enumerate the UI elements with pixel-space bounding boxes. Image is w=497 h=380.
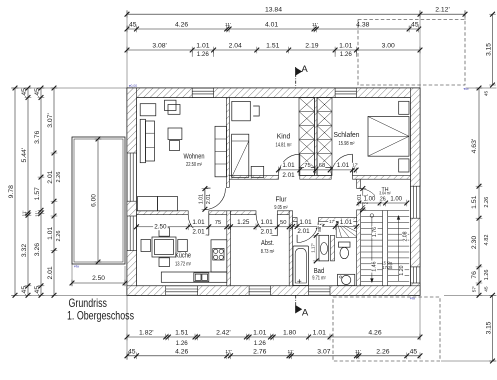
svg-text:45: 45 bbox=[128, 348, 136, 355]
svg-text:17': 17' bbox=[225, 349, 231, 355]
svg-text:2.30: 2.30 bbox=[471, 236, 478, 249]
dim top row total 13.84 / 2.12 bbox=[127, 13, 465, 15]
svg-text:8.73 m²: 8.73 m² bbox=[261, 249, 275, 255]
svg-text:3.15: 3.15 bbox=[485, 321, 492, 334]
svg-text:1.51: 1.51 bbox=[266, 42, 279, 49]
svg-text:1.01: 1.01 bbox=[282, 162, 295, 169]
svg-text:Schlafen: Schlafen bbox=[334, 130, 360, 139]
svg-text:9.71 m²: 9.71 m² bbox=[312, 275, 326, 281]
dim left total 9.78 bbox=[14, 88, 16, 295]
svg-text:1.80: 1.80 bbox=[283, 329, 296, 336]
svg-text:2.08: 2.08 bbox=[402, 231, 408, 241]
chair Kind bbox=[253, 106, 259, 116]
dim Abst row bbox=[231, 226, 293, 228]
svg-text:.45: .45 bbox=[21, 286, 28, 296]
svg-text:.45: .45 bbox=[34, 88, 41, 98]
dim bottom row 1 bbox=[127, 336, 420, 338]
shower bbox=[335, 221, 337, 237]
svg-text:3.26: 3.26 bbox=[34, 243, 41, 256]
svg-text:68: 68 bbox=[319, 163, 325, 169]
svg-text:3.64 m²: 3.64 m² bbox=[379, 191, 391, 196]
svg-text:2.01: 2.01 bbox=[192, 228, 205, 235]
door Kueche bbox=[208, 215, 210, 236]
balcony dim 6.00 bbox=[97, 139, 99, 262]
sofa bottom bbox=[138, 197, 158, 211]
dining table bbox=[152, 237, 176, 257]
svg-text:4.63': 4.63' bbox=[471, 139, 478, 154]
wall Flur-TH bbox=[357, 179, 361, 188]
dim TH door bbox=[362, 189, 364, 210]
sink bbox=[194, 273, 209, 282]
svg-text:A: A bbox=[301, 64, 308, 75]
dim Kueche row bbox=[137, 226, 231, 228]
svg-text:1.01: 1.01 bbox=[196, 42, 209, 49]
svg-text:Abst.: Abst. bbox=[261, 238, 274, 247]
wc bbox=[339, 242, 351, 247]
svg-text:4.26: 4.26 bbox=[368, 329, 381, 336]
svg-text:2.50: 2.50 bbox=[92, 275, 105, 282]
svg-text:1.51: 1.51 bbox=[471, 195, 478, 208]
dim right col main bbox=[478, 88, 480, 295]
svg-text:2.76: 2.76 bbox=[253, 348, 266, 355]
section mark A top bbox=[295, 67, 297, 88]
door Schlafen bbox=[352, 154, 354, 175]
svg-text:1.01: 1.01 bbox=[198, 194, 204, 204]
door Bad bbox=[296, 221, 298, 242]
svg-text:2.19: 2.19 bbox=[305, 42, 318, 49]
svg-text:1.51: 1.51 bbox=[175, 329, 188, 336]
dim bottom row 1 subs 1.26 bbox=[167, 334, 169, 341]
svg-text:3.76: 3.76 bbox=[34, 130, 41, 143]
svg-text:▾0,00: ▾0,00 bbox=[129, 84, 137, 88]
svg-text:1.17': 1.17' bbox=[310, 243, 315, 253]
svg-text:.45: .45 bbox=[409, 21, 419, 28]
sofa left bbox=[140, 119, 145, 162]
svg-text:Wohnen: Wohnen bbox=[184, 152, 205, 161]
svg-text:2.26: 2.26 bbox=[376, 348, 389, 355]
wall Wohnen-Kind bbox=[226, 98, 229, 188]
svg-text:4.26: 4.26 bbox=[175, 21, 188, 28]
window top Wohnen bbox=[192, 90, 213, 92]
svg-text:11': 11' bbox=[21, 210, 27, 216]
bathtub bbox=[293, 246, 309, 286]
corridor top wall bbox=[229, 176, 278, 180]
svg-text:2.01: 2.01 bbox=[282, 172, 295, 179]
svg-text:17': 17' bbox=[352, 162, 358, 167]
svg-text:▾tw: ▾tw bbox=[74, 264, 80, 268]
svg-text:1.46: 1.46 bbox=[372, 261, 378, 271]
svg-text:4.38: 4.38 bbox=[356, 21, 369, 28]
wall right bbox=[411, 88, 421, 186]
dim top row 2 bbox=[127, 28, 419, 30]
svg-text:2.01: 2.01 bbox=[47, 266, 54, 279]
vanity bbox=[319, 235, 329, 261]
svg-text:11': 11' bbox=[225, 22, 231, 28]
svg-text:3.15: 3.15 bbox=[485, 43, 492, 56]
dim top row 3 bbox=[127, 49, 420, 51]
wall Kueche top bbox=[137, 211, 189, 215]
svg-text:1.01: 1.01 bbox=[337, 162, 350, 169]
door Wohnen-Flur bbox=[205, 187, 211, 189]
armchair bbox=[140, 104, 156, 116]
svg-text:2.26: 2.26 bbox=[56, 172, 62, 183]
shelf bbox=[215, 126, 227, 177]
balcony dim 2.50 bbox=[72, 282, 125, 284]
svg-text:1.01: 1.01 bbox=[313, 329, 326, 336]
wall left bbox=[127, 88, 137, 153]
dim stairs width bbox=[359, 202, 407, 204]
svg-text:2.12': 2.12' bbox=[435, 7, 450, 14]
staircase bbox=[361, 210, 409, 212]
dim Wohnen-Flur door bbox=[202, 188, 209, 190]
dim Flur doors row bbox=[279, 169, 357, 171]
svg-text:3.08': 3.08' bbox=[152, 42, 167, 49]
svg-text:.45: .45 bbox=[34, 286, 41, 296]
dim bottom row 2 bbox=[127, 355, 420, 357]
svg-text:2.01: 2.01 bbox=[47, 170, 54, 183]
wall Bad top bbox=[293, 218, 298, 222]
svg-text:9.05 m²: 9.05 m² bbox=[274, 205, 288, 211]
svg-text:1.26: 1.26 bbox=[176, 340, 189, 347]
svg-text:4.82: 4.82 bbox=[484, 235, 490, 246]
svg-text:2.50: 2.50 bbox=[154, 223, 167, 230]
outer wall outline bbox=[127, 88, 420, 295]
svg-text:22.50 m²: 22.50 m² bbox=[186, 162, 202, 168]
extension lines bbox=[126, 10, 128, 88]
dashed roof outline top-right bbox=[358, 20, 465, 85]
svg-text:11': 11' bbox=[34, 211, 40, 217]
svg-text:3.00: 3.00 bbox=[382, 42, 395, 49]
svg-text:1.57: 1.57 bbox=[34, 187, 41, 200]
wall bottom bbox=[127, 286, 166, 296]
svg-text:13.84: 13.84 bbox=[265, 7, 282, 14]
svg-text:4.26: 4.26 bbox=[175, 348, 188, 355]
svg-text:A: A bbox=[302, 308, 309, 319]
svg-text:1.01: 1.01 bbox=[260, 219, 273, 226]
svg-text:17/28: 17/28 bbox=[382, 265, 393, 270]
svg-text:11': 11' bbox=[288, 349, 294, 355]
stub wall vanity bbox=[331, 235, 335, 261]
stove bbox=[213, 249, 224, 261]
svg-text:1.01: 1.01 bbox=[339, 42, 352, 49]
svg-text:75: 75 bbox=[304, 163, 310, 169]
svg-text:1.26: 1.26 bbox=[254, 340, 267, 347]
window left bbox=[129, 216, 131, 251]
svg-text:.45: .45 bbox=[127, 21, 137, 28]
svg-text:1.20: 1.20 bbox=[399, 265, 405, 275]
svg-text:4.01: 4.01 bbox=[265, 21, 278, 28]
svg-text:3.07': 3.07' bbox=[47, 113, 54, 128]
svg-text:76: 76 bbox=[471, 271, 478, 279]
svg-text:1.01: 1.01 bbox=[340, 219, 353, 226]
svg-text:14.81 m²: 14.81 m² bbox=[276, 142, 292, 148]
svg-text:1.82': 1.82' bbox=[139, 329, 154, 336]
nightstand 2 bbox=[399, 159, 409, 172]
armchair 2 bbox=[165, 100, 177, 110]
svg-text:13.72 m²: 13.72 m² bbox=[175, 261, 191, 267]
section mark A bottom bbox=[295, 295, 297, 309]
chairs bbox=[141, 240, 151, 252]
balcony door left bbox=[129, 153, 131, 201]
svg-text:▾tw: ▾tw bbox=[464, 87, 470, 91]
wall Kueche-Abst bbox=[227, 211, 231, 286]
svg-text:1.01: 1.01 bbox=[253, 329, 266, 336]
svg-text:1.01: 1.01 bbox=[299, 219, 312, 226]
svg-text:Bad: Bad bbox=[314, 266, 325, 275]
wall Abst-Bad bbox=[289, 211, 292, 286]
svg-text:11': 11' bbox=[355, 349, 361, 355]
svg-text:1.01: 1.01 bbox=[47, 226, 54, 239]
svg-text:1.26: 1.26 bbox=[484, 269, 490, 280]
svg-text:▾tw: ▾tw bbox=[410, 297, 416, 301]
svg-text:2.26: 2.26 bbox=[484, 197, 490, 208]
window bottom Kueche bbox=[166, 288, 198, 290]
svg-text:3.32: 3.32 bbox=[21, 244, 28, 257]
wall Abst top bbox=[231, 211, 257, 215]
svg-text:2.04: 2.04 bbox=[229, 42, 242, 49]
svg-text:3.07: 3.07 bbox=[317, 348, 330, 355]
svg-text:17': 17' bbox=[329, 219, 335, 224]
svg-text:45: 45 bbox=[484, 286, 490, 292]
dashed terrace outline bottom-right bbox=[333, 297, 440, 361]
dim left col 2 bbox=[27, 88, 29, 295]
svg-text:Flur: Flur bbox=[276, 195, 287, 204]
svg-text:9.78: 9.78 bbox=[8, 185, 15, 198]
svg-text:1.26: 1.26 bbox=[197, 51, 210, 58]
svg-text:2.01: 2.01 bbox=[297, 228, 310, 235]
door TH bbox=[360, 195, 375, 210]
svg-text:2.26: 2.26 bbox=[56, 231, 62, 242]
stair walk line left bbox=[370, 214, 374, 218]
bed Schlafen bbox=[368, 117, 409, 157]
svg-text:Kind: Kind bbox=[277, 132, 291, 141]
svg-text:Küche: Küche bbox=[175, 251, 191, 260]
dim right 3.15 bottom bbox=[492, 295, 494, 361]
bed Kind bbox=[232, 134, 249, 177]
svg-text:50: 50 bbox=[280, 220, 286, 226]
svg-text:1.25: 1.25 bbox=[237, 219, 250, 226]
window bottom Bad bbox=[309, 288, 330, 290]
dim left col 4 bbox=[53, 88, 55, 295]
svg-text:1.26: 1.26 bbox=[340, 51, 353, 58]
svg-text:2.42': 2.42' bbox=[216, 329, 231, 336]
dim left col 3 bbox=[40, 88, 42, 295]
svg-text:1.01: 1.01 bbox=[192, 219, 205, 226]
svg-text:15.98 m²: 15.98 m² bbox=[339, 141, 355, 147]
window right upper bbox=[413, 186, 415, 218]
dim right 3.15 top bbox=[492, 14, 494, 85]
dim Bad row bbox=[293, 226, 357, 228]
nightstand 1 bbox=[399, 101, 409, 114]
svg-text:45: 45 bbox=[410, 348, 418, 355]
svg-text:88': 88' bbox=[317, 226, 322, 232]
washing machine bbox=[338, 274, 355, 285]
dim top row 3 sub 1.26 bbox=[191, 50, 193, 57]
svg-text:26: 26 bbox=[380, 196, 386, 202]
stair walk line right bbox=[398, 218, 400, 281]
coffee table bbox=[168, 128, 182, 140]
svg-text:45: 45 bbox=[484, 91, 490, 97]
svg-text:5.44': 5.44' bbox=[21, 148, 28, 163]
svg-text:.45: .45 bbox=[21, 88, 28, 98]
window right lower bbox=[413, 267, 415, 283]
door Kind bbox=[299, 154, 301, 175]
svg-text:57': 57' bbox=[471, 286, 477, 292]
svg-text:1. Obergeschoss: 1. Obergeschoss bbox=[67, 309, 134, 323]
svg-text:1.00: 1.00 bbox=[364, 197, 376, 203]
wall top bbox=[127, 88, 192, 98]
dim vanity bbox=[315, 235, 317, 261]
chimney mid wall bbox=[315, 98, 318, 176]
kitchen counter bbox=[161, 272, 227, 282]
svg-text:2.01: 2.01 bbox=[206, 194, 212, 204]
svg-text:1.01: 1.01 bbox=[357, 194, 363, 204]
svg-text:1.00: 1.00 bbox=[390, 197, 402, 203]
window top Schlafen bbox=[335, 90, 356, 92]
svg-text:2.01: 2.01 bbox=[260, 228, 273, 235]
svg-text:1.76: 1.76 bbox=[372, 227, 378, 237]
door Abst bbox=[276, 215, 278, 236]
balcony bbox=[72, 137, 125, 264]
window bottom Abst bbox=[249, 288, 270, 290]
dresser Kind bbox=[251, 166, 264, 177]
svg-text:6.00: 6.00 bbox=[91, 194, 98, 207]
svg-text:75: 75 bbox=[215, 220, 221, 226]
desk Kind bbox=[232, 101, 251, 120]
svg-text:11': 11' bbox=[312, 22, 318, 28]
chimney blocks bbox=[299, 168, 315, 176]
